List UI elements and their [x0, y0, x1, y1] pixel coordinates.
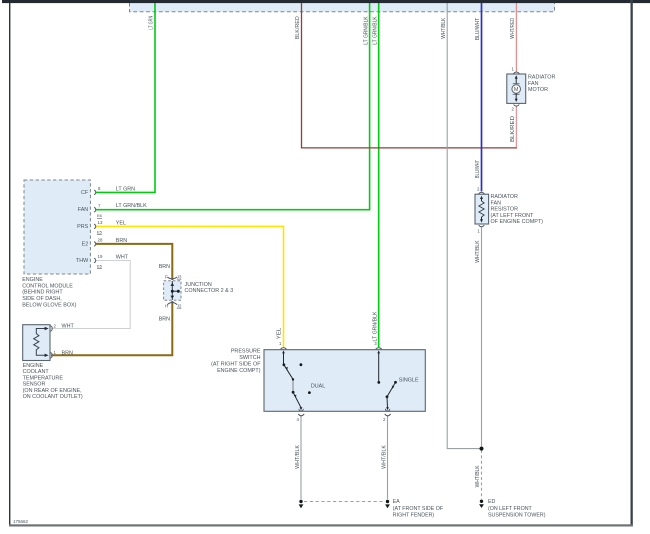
svg-text:SUSPENSION TOWER): SUSPENSION TOWER) [488, 512, 546, 518]
svg-text:ON COOLANT OUTLET): ON COOLANT OUTLET) [23, 394, 83, 400]
svg-text:E6: E6 [97, 213, 103, 218]
svg-text:CF: CF [81, 190, 89, 196]
svg-text:MOTOR: MOTOR [528, 87, 548, 93]
svg-text:H: H [165, 303, 168, 308]
svg-text:19: 19 [98, 254, 103, 259]
svg-text:175662: 175662 [13, 519, 29, 524]
svg-text:LT GRN/BLK: LT GRN/BLK [363, 16, 369, 45]
svg-text:THW: THW [76, 258, 89, 264]
svg-text:BRN: BRN [159, 316, 170, 322]
svg-text:SENSOR: SENSOR [23, 381, 46, 387]
svg-text:LT GRN/BLK: LT GRN/BLK [116, 203, 147, 209]
svg-text:WHT: WHT [62, 323, 75, 329]
svg-text:LT GRN/BLK: LT GRN/BLK [372, 311, 378, 341]
svg-text:RESISTOR: RESISTOR [491, 207, 519, 213]
svg-text:DUAL: DUAL [311, 383, 325, 389]
svg-text:BLU/WHT: BLU/WHT [475, 17, 481, 40]
svg-text:BELOW GLOVE BOX): BELOW GLOVE BOX) [22, 303, 76, 309]
svg-text:BLU/WHT: BLU/WHT [475, 159, 481, 178]
svg-text:E2: E2 [82, 242, 89, 248]
svg-text:(BEHIND RIGHT: (BEHIND RIGHT [22, 290, 63, 296]
svg-text:PRS: PRS [77, 224, 88, 230]
svg-text:EA: EA [393, 499, 401, 505]
svg-text:13: 13 [98, 220, 103, 225]
svg-text:FAN: FAN [78, 207, 89, 213]
svg-text:E5: E5 [97, 230, 103, 235]
svg-text:SWITCH: SWITCH [239, 355, 260, 361]
svg-text:LT GRN/BLK: LT GRN/BLK [372, 16, 378, 45]
svg-text:SINGLE: SINGLE [399, 378, 419, 384]
svg-text:F: F [165, 275, 168, 280]
svg-text:BRN: BRN [159, 264, 170, 270]
svg-text:ED: ED [488, 499, 496, 505]
svg-text:(AT LEFT FRONT: (AT LEFT FRONT [491, 213, 535, 219]
svg-text:(ON LEFT FRONT: (ON LEFT FRONT [488, 506, 533, 512]
svg-text:RADIATOR: RADIATOR [491, 194, 518, 200]
svg-text:BRN: BRN [116, 238, 127, 244]
svg-text:WHT/RED: WHT/RED [510, 18, 516, 39]
svg-text:PRESSURE: PRESSURE [231, 349, 261, 355]
svg-text:BLK/RED: BLK/RED [295, 16, 301, 39]
svg-text:RIGHT FENDER): RIGHT FENDER) [393, 512, 435, 518]
svg-text:CONNECTOR 2 & 3: CONNECTOR 2 & 3 [185, 288, 234, 294]
svg-text:CONTROL MODULE: CONTROL MODULE [22, 283, 73, 289]
svg-text:LT GRN: LT GRN [149, 16, 155, 30]
svg-text:J2: J2 [177, 303, 182, 308]
svg-text:COOLANT: COOLANT [23, 369, 50, 375]
svg-text:M: M [514, 87, 519, 93]
svg-text:(AT RIGHT SIDE OF: (AT RIGHT SIDE OF [211, 362, 261, 368]
svg-text:WHT: WHT [116, 254, 129, 260]
svg-text:BLK/RED: BLK/RED [510, 116, 516, 142]
svg-text:BRN: BRN [62, 351, 73, 357]
svg-text:ENGINE COMPT): ENGINE COMPT) [217, 368, 261, 374]
svg-text:LT GRN: LT GRN [116, 187, 135, 193]
svg-text:SIDE OF DASH,: SIDE OF DASH, [22, 296, 62, 302]
svg-text:FAN: FAN [491, 200, 502, 206]
svg-text:(AT FRONT SIDE OF: (AT FRONT SIDE OF [393, 506, 444, 512]
svg-text:YEL: YEL [277, 328, 283, 340]
svg-text:(ON REAR OF ENGINE,: (ON REAR OF ENGINE, [23, 388, 83, 394]
svg-text:WHT/BLK: WHT/BLK [475, 465, 481, 487]
svg-text:JUNCTION: JUNCTION [185, 282, 212, 288]
svg-text:WHT/BLK: WHT/BLK [295, 445, 301, 469]
svg-text:WHT/BLK: WHT/BLK [441, 17, 447, 38]
svg-text:28: 28 [98, 238, 103, 243]
svg-text:OF ENGINE COMPT): OF ENGINE COMPT) [491, 219, 544, 225]
svg-text:YEL: YEL [116, 221, 126, 227]
svg-text:E5: E5 [97, 264, 103, 269]
svg-text:FAN: FAN [528, 81, 539, 87]
svg-text:ENGINE: ENGINE [22, 277, 43, 283]
svg-text:WHT/BLK: WHT/BLK [475, 240, 481, 263]
svg-text:J3: J3 [177, 275, 182, 280]
svg-text:ENGINE: ENGINE [23, 363, 44, 369]
svg-text:WHT/BLK: WHT/BLK [381, 445, 387, 469]
svg-text:RADIATOR: RADIATOR [528, 74, 555, 80]
